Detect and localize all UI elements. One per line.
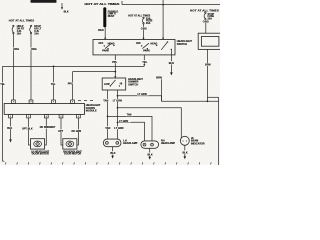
- wire RED fusible link to headlight switch: [98, 27, 106, 39]
- pin bottom 2: [27, 114, 31, 118]
- wire YEL left drop: [0, 66, 5, 159]
- pin top 4: [71, 100, 75, 104]
- svg-text:LT GRN: LT GRN: [138, 93, 147, 96]
- wire jog to right edge: [207, 97, 218, 165]
- svg-text:ORG: ORG: [203, 19, 209, 23]
- svg-text:INDICATOR: INDICATOR: [191, 142, 205, 145]
- svg-text:BLK: BLK: [183, 151, 188, 154]
- svg-text:BLK: BLK: [169, 61, 174, 65]
- svg-text:OFF: OFF: [98, 42, 103, 45]
- pin top 2: [29, 100, 33, 104]
- switch contacts left: [98, 42, 114, 52]
- svg-text:DK GRN: DK GRN: [72, 130, 82, 133]
- svg-text:BLK: BLK: [64, 10, 69, 13]
- circuit breaker CB2 HDLP: [30, 25, 42, 35]
- pin top 3: [52, 100, 56, 104]
- svg-text:ORG: ORG: [31, 47, 37, 51]
- svg-text:BLK: BLK: [110, 152, 115, 155]
- pin bottom 4: [59, 114, 63, 118]
- wire ORG fuse to lamp box: [202, 19, 208, 33]
- wire LT GRN branch to RH headlamp: [118, 119, 145, 140]
- wire ORG from CB1 to module: [13, 34, 19, 100]
- svg-text:ORG: ORG: [13, 47, 19, 51]
- svg-text:20A: 20A: [146, 22, 151, 25]
- wire top rail: [122, 1, 220, 5]
- wire LT GRN branch right: [118, 93, 219, 102]
- unused pin dashes: [78, 99, 93, 101]
- svg-text:BRN: BRN: [205, 63, 211, 67]
- LH headlight door motor: [31, 139, 50, 156]
- headlight doors module: [4, 104, 101, 115]
- pin bottom 3: [44, 114, 48, 118]
- svg-text:LT GRN: LT GRN: [113, 99, 122, 102]
- svg-text:PPL: PPL: [68, 83, 73, 86]
- wire BRN from lamp box down: [205, 49, 211, 101]
- pin bottom 1: [9, 114, 13, 118]
- wire ORG from CB2 to module: [30, 34, 36, 100]
- switch contacts right: [136, 41, 172, 55]
- photo artifact bar top-left: [31, 0, 57, 3]
- svg-text:YEL: YEL: [142, 60, 147, 64]
- svg-text:SWITCH: SWITCH: [177, 42, 187, 46]
- ground BLK of switch: [169, 55, 174, 76]
- ground BLK LH headlamp: [110, 147, 115, 159]
- svg-text:RUST: RUST: [108, 15, 115, 18]
- svg-text:HOT AT ALL TIMES: HOT AT ALL TIMES: [85, 3, 121, 6]
- svg-text:BLK: BLK: [148, 153, 153, 156]
- svg-text:15A: 15A: [34, 32, 39, 35]
- wire PPL drop to module: [67, 72, 73, 100]
- svg-text:TAN: TAN: [105, 127, 110, 130]
- svg-text:OPT: OPT: [58, 130, 64, 133]
- svg-text:PPL: PPL: [112, 60, 117, 64]
- svg-text:RED: RED: [98, 28, 104, 32]
- svg-text:SWITCH: SWITCH: [128, 83, 138, 86]
- svg-text:HI: HI: [120, 83, 123, 86]
- wire PPL bus: [73, 71, 117, 73]
- wire TAN branch to RH headlamp: [108, 113, 153, 141]
- svg-text:DK BRN/WHT: DK BRN/WHT: [40, 126, 56, 129]
- wire BRN switch park output: [156, 75, 162, 101]
- wire DK BRN WHT to LH motor: [39, 118, 56, 145]
- wire DK GRN to RH motor: [71, 118, 82, 145]
- wire drop from top rail to headlight switch: [162, 0, 164, 40]
- svg-text:HEADLAMP: HEADLAMP: [123, 142, 137, 145]
- headlight dimmer switch: [102, 78, 143, 90]
- svg-text:OPT BLK: OPT BLK: [22, 127, 33, 130]
- svg-text:DOOR MOTOR: DOOR MOTOR: [32, 153, 49, 156]
- connector arrow BLK top: [61, 3, 69, 13]
- pin top 1: [12, 100, 16, 104]
- wire OPT to RH motor: [58, 118, 65, 145]
- svg-text:ORG: ORG: [141, 26, 147, 30]
- svg-text:MODULE: MODULE: [86, 110, 97, 113]
- circuit breaker CB1 HDLP: [12, 25, 25, 35]
- svg-text:15A: 15A: [17, 32, 22, 35]
- hi beam indicator: [180, 136, 204, 145]
- svg-text:DOOR MOTOR: DOOR MOTOR: [64, 153, 81, 156]
- wire PPL switch to dimmer: [112, 55, 118, 78]
- wire TAN dimmer to LH headlamp: [103, 90, 111, 139]
- node junctions LT GRN: [107, 95, 119, 123]
- ground BLK hi beam indicator: [183, 145, 188, 159]
- svg-text:YEL: YEL: [0, 83, 5, 86]
- fuse STOP 20A: [204, 12, 214, 21]
- svg-text:PARK: PARK: [102, 50, 109, 53]
- LH headlamp: [103, 139, 137, 147]
- wire YEL switch to bus: [142, 55, 149, 66]
- fusible link A: [103, 7, 118, 27]
- svg-text:PARK: PARK: [143, 50, 150, 53]
- svg-text:YEL: YEL: [51, 83, 56, 86]
- fuse TAIL 20A: [142, 17, 152, 25]
- svg-text:TAN: TAN: [127, 114, 132, 117]
- svg-text:BRN: BRN: [156, 75, 162, 79]
- wire YEL bus: [3, 66, 145, 68]
- svg-text:LOW: LOW: [104, 83, 110, 86]
- ground BLK module: [7, 118, 14, 143]
- wire LT GRN branch to hi beam indicator: [118, 108, 182, 139]
- svg-text:TAN: TAN: [103, 99, 108, 102]
- bottom page edge rail: [3, 160, 5, 162]
- headlight switch box: [93, 39, 192, 55]
- RH headlamp: [141, 139, 175, 148]
- wire YEL drop to module: [50, 66, 56, 100]
- svg-text:LT GRN: LT GRN: [119, 120, 128, 123]
- svg-text:BLK: BLK: [7, 127, 12, 130]
- svg-text:HOT AT ALL TIMES: HOT AT ALL TIMES: [9, 19, 35, 23]
- bottom edge ticks: [5, 162, 211, 164]
- wire OPT BLK to LH motor: [22, 118, 33, 145]
- pin bottom 5: [77, 114, 81, 118]
- node junction on top rail: [162, 4, 164, 6]
- wire ORG fuse to headlight switch: [140, 24, 146, 39]
- svg-text:LT GRN: LT GRN: [114, 127, 123, 130]
- wire LT GRN dimmer to LH headlamp: [112, 90, 123, 139]
- svg-text:OFF: OFF: [136, 42, 141, 45]
- svg-text:HEADLAMP: HEADLAMP: [161, 142, 175, 145]
- lamp unit box right: [198, 33, 221, 49]
- ground BLK RH headlamp: [148, 148, 153, 159]
- node junction BRN: [207, 100, 209, 102]
- RH headlight door motor: [63, 139, 82, 156]
